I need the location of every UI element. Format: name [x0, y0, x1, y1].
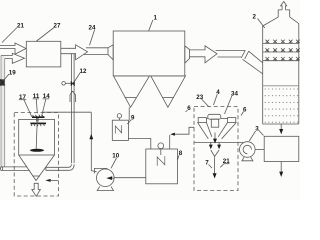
- label 27 + leader: [36, 22, 61, 41]
- ESP right hopper: [151, 76, 186, 107]
- recycle inlet hollow arrow (lower): [1, 53, 25, 63]
- second distributor bar: [30, 123, 46, 126]
- converging underflow lines and discharge arrow: [211, 150, 219, 179]
- box 5: [264, 136, 299, 161]
- damper valve 19 on recycle duct: [0, 69, 16, 85]
- spray nozzles row 2: [265, 48, 299, 52]
- box 8 vent circle: [158, 143, 164, 155]
- label 6 left + leader: [186, 105, 192, 112]
- cyclone center box: [211, 119, 218, 127]
- line from left hopper tip to box 9: [128, 107, 130, 120]
- svg-text:27: 27: [54, 22, 61, 29]
- ESP outlet connector trapezoid: [185, 46, 190, 63]
- label 4 + leader: [214, 89, 221, 105]
- box 27 (heat exchanger): [26, 41, 61, 67]
- svg-text:6: 6: [187, 105, 191, 112]
- left cyclone: [198, 118, 212, 139]
- dashed enclosure around cyclone cluster: [194, 107, 238, 191]
- spray level line 3: [263, 60, 299, 62]
- label 23 + leader: [196, 94, 209, 107]
- svg-text:6: 6: [243, 106, 247, 113]
- pump 3: [240, 142, 256, 161]
- label 8 + leader: [177, 150, 182, 160]
- pipe 12 elbow to horizontal run toward tank funnel: [46, 164, 74, 170]
- svg-text:8: 8: [179, 150, 183, 157]
- svg-text:19: 19: [9, 69, 16, 76]
- center black down arrow: [213, 133, 217, 144]
- injector symbol on pipe 12: [70, 91, 75, 102]
- tank funnel: [19, 155, 55, 181]
- label 21 (cyclone underflow) + leader: [220, 158, 230, 167]
- label 9 + leader: [127, 114, 135, 124]
- outlet duct to tower: [216, 50, 246, 57]
- pump 10 suction line from box 8: [114, 177, 146, 179]
- spray level line 2: [263, 51, 299, 53]
- outlet hollow arrow: [190, 46, 218, 63]
- tank 13 body: [19, 119, 55, 155]
- right cyclone underflow arrow: [217, 142, 221, 149]
- slurry level line in tower: [263, 85, 299, 87]
- riser line from pump 10 to tank distributor: [42, 112, 97, 172]
- box 8 agitator zigzag: [157, 156, 165, 166]
- ESP inlet connector trapezoid: [108, 45, 113, 60]
- pump 10: [94, 168, 114, 190]
- tank top distributor (toothed bar): [32, 115, 45, 122]
- label 24 + leader: [89, 24, 96, 45]
- label 21: [2, 23, 24, 43]
- branch pipe 12 (vertical double line): [71, 54, 74, 163]
- labels 17 11 14 + leaders: [19, 93, 50, 117]
- ESP left hopper: [114, 76, 150, 107]
- diagonal duct into tower: [243, 51, 263, 74]
- duct 24 continuation to ESP inlet: [84, 48, 108, 55]
- chimney outlet hollow arrow up: [281, 2, 287, 10]
- right cyclone: [218, 118, 236, 139]
- slurry dots in tower bottom: [265, 88, 299, 122]
- valve on pipe 12 (dark) with handwheel: [62, 81, 75, 86]
- svg-text:2: 2: [253, 13, 257, 20]
- tank outlet hollow arrow down: [32, 183, 41, 196]
- label 1 + leader: [149, 15, 158, 31]
- label 3 + leader: [249, 125, 263, 141]
- chimney: [278, 10, 290, 17]
- agitator propeller: [30, 149, 44, 152]
- spray nozzles row 1: [265, 40, 299, 44]
- spray nozzles row 3: [265, 57, 299, 61]
- svg-text:9: 9: [131, 114, 135, 121]
- svg-text:21: 21: [17, 23, 24, 30]
- agitator shaft: [36, 118, 37, 149]
- left cyclone underflow arrow: [209, 142, 213, 149]
- cyclone feed header (rounded): [208, 114, 221, 119]
- box 9: [112, 120, 128, 140]
- cyclone overflow line to box 8: [170, 127, 195, 149]
- left wing line: [195, 141, 244, 143]
- label 2 + leader: [253, 13, 265, 28]
- label 10 + leader: [111, 153, 120, 169]
- left bottom pipe from recycle duct to tank funnel: [2, 167, 30, 171]
- box 5 bottom outlet arrow: [279, 162, 283, 178]
- svg-text:1: 1: [154, 15, 158, 22]
- svg-text:12: 12: [80, 68, 87, 75]
- box 9 agitator zigzag: [115, 125, 121, 133]
- flue gas inlet hollow arrow (upper): [0, 43, 26, 54]
- pump 3 discharge line to box 5: [255, 149, 264, 151]
- label 34 + leader: [225, 90, 239, 114]
- label 12 + leader: [75, 68, 87, 81]
- left recycle duct (vertical double line): [1, 56, 5, 167]
- box 9 vent circle: [117, 114, 121, 121]
- dashed enclosure around tank: [14, 113, 58, 197]
- box 9 outlet line to box 8: [129, 138, 151, 149]
- label 6 right + leader: [241, 106, 247, 115]
- duct 24: hollow arrow from box 27 to ESP: [61, 45, 88, 60]
- ESP unit 1 body: [113, 31, 185, 76]
- label 7 + leader: [205, 159, 212, 168]
- small arrow into tank funnel: [45, 179, 58, 182]
- duct elbow mitre: [241, 50, 249, 59]
- tower bottom outlet arrow to box 5: [279, 124, 283, 134]
- spray level line 1: [263, 42, 299, 44]
- box 8: [146, 149, 178, 184]
- absorber tower 2: walls and roof: [263, 17, 299, 124]
